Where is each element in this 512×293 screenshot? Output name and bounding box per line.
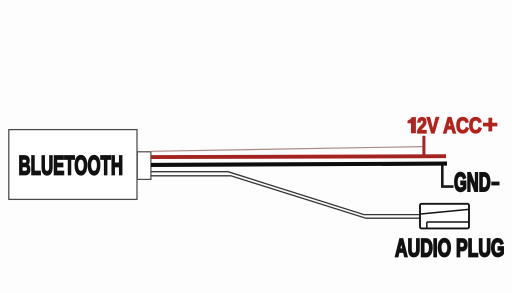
- svg-text:GND: GND: [454, 169, 491, 197]
- svg-text:BLUETOOTH: BLUETOOTH: [19, 151, 124, 181]
- svg-text:AUDIO PLUG: AUDIO PLUG: [395, 235, 505, 263]
- svg-text:2V ACC: 2V ACC: [417, 113, 482, 138]
